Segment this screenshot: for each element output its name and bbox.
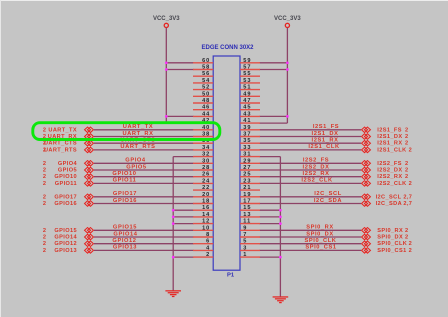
svg-text:58: 58: [202, 65, 210, 71]
svg-text:SPI0_DX: SPI0_DX: [377, 235, 403, 241]
svg-text:SPI0_CS1: SPI0_CS1: [377, 248, 406, 254]
svg-text:50: 50: [202, 91, 210, 97]
svg-text:UART_RX: UART_RX: [122, 131, 153, 137]
svg-text:3: 3: [243, 245, 247, 251]
svg-text:2,7: 2,7: [403, 201, 412, 207]
svg-text:2: 2: [43, 161, 47, 167]
svg-text:27: 27: [243, 165, 251, 171]
svg-text:29: 29: [243, 158, 251, 164]
svg-text:2: 2: [405, 228, 409, 234]
svg-text:2: 2: [409, 248, 413, 254]
svg-text:SPI0_RX: SPI0_RX: [306, 225, 334, 231]
svg-text:39: 39: [243, 125, 251, 131]
svg-text:7: 7: [243, 232, 247, 238]
svg-text:51: 51: [243, 85, 251, 91]
svg-text:UART_RTS: UART_RTS: [120, 144, 155, 150]
svg-text:45: 45: [243, 105, 251, 111]
svg-text:GPIO12: GPIO12: [54, 241, 77, 247]
svg-text:I2C_SDA: I2C_SDA: [376, 201, 402, 207]
svg-text:34: 34: [202, 145, 210, 151]
svg-text:49: 49: [243, 91, 251, 97]
svg-text:21: 21: [243, 185, 251, 191]
svg-text:2: 2: [43, 248, 47, 254]
svg-text:44: 44: [202, 111, 210, 117]
svg-text:35: 35: [243, 138, 251, 144]
svg-text:15: 15: [243, 205, 251, 211]
svg-text:24: 24: [202, 178, 210, 184]
svg-text:UART_TX: UART_TX: [48, 127, 77, 133]
svg-text:43: 43: [243, 111, 251, 117]
svg-text:52: 52: [202, 85, 210, 91]
svg-text:30: 30: [202, 158, 210, 164]
svg-text:47: 47: [243, 98, 251, 104]
svg-text:VCC_3V3: VCC_3V3: [274, 16, 301, 22]
svg-text:2: 2: [409, 181, 413, 187]
svg-text:2: 2: [43, 168, 47, 174]
svg-text:10: 10: [202, 225, 210, 231]
svg-text:38: 38: [202, 132, 210, 138]
svg-text:I2S2_CLK: I2S2_CLK: [377, 181, 406, 187]
svg-text:EDGE CONN 30X2: EDGE CONN 30X2: [201, 45, 254, 51]
svg-text:SPI0_CLK: SPI0_CLK: [377, 241, 407, 247]
svg-text:SPI0_RX: SPI0_RX: [377, 228, 403, 234]
svg-text:GPIO12: GPIO12: [112, 238, 136, 244]
svg-text:25: 25: [243, 172, 251, 178]
svg-text:2: 2: [43, 174, 47, 180]
svg-text:I2S1_FS: I2S1_FS: [313, 124, 339, 130]
svg-text:GPIO14: GPIO14: [113, 231, 137, 237]
svg-text:GPIO11: GPIO11: [55, 181, 77, 187]
svg-text:2: 2: [43, 241, 47, 247]
svg-text:2: 2: [43, 201, 47, 207]
svg-text:20: 20: [202, 192, 210, 198]
svg-text:1: 1: [243, 252, 247, 258]
svg-text:2: 2: [405, 134, 409, 140]
svg-text:GPIO4: GPIO4: [58, 161, 78, 167]
svg-text:2: 2: [405, 235, 409, 241]
svg-text:54: 54: [202, 78, 210, 84]
svg-text:GPIO15: GPIO15: [113, 225, 137, 231]
svg-text:UART_TX: UART_TX: [123, 124, 153, 130]
svg-text:53: 53: [243, 78, 251, 84]
svg-text:4: 4: [206, 245, 210, 251]
svg-text:GPIO15: GPIO15: [54, 228, 77, 234]
svg-text:28: 28: [202, 165, 210, 171]
svg-text:2: 2: [206, 252, 210, 258]
svg-text:2,7: 2,7: [403, 194, 412, 200]
svg-text:GPIO4: GPIO4: [125, 158, 146, 164]
svg-text:13: 13: [243, 212, 251, 218]
svg-text:I2S1_FS: I2S1_FS: [377, 127, 402, 133]
svg-text:2: 2: [43, 127, 47, 133]
svg-text:9: 9: [243, 225, 247, 231]
svg-text:I2S2_DX: I2S2_DX: [303, 164, 330, 170]
svg-text:16: 16: [202, 205, 210, 211]
svg-text:17: 17: [243, 199, 251, 205]
svg-text:GPIO17: GPIO17: [54, 194, 77, 200]
svg-text:GPIO13: GPIO13: [54, 248, 77, 254]
svg-text:60: 60: [202, 58, 210, 64]
svg-text:I2S1_CLK: I2S1_CLK: [308, 144, 340, 150]
svg-text:2: 2: [409, 241, 413, 247]
svg-text:5: 5: [243, 239, 247, 245]
svg-text:I2S2_DX: I2S2_DX: [377, 168, 402, 174]
svg-text:I2S2_FS: I2S2_FS: [377, 161, 402, 167]
svg-text:56: 56: [202, 71, 210, 77]
svg-text:22: 22: [202, 185, 210, 191]
svg-text:GPIO16: GPIO16: [54, 201, 77, 207]
svg-text:2: 2: [409, 147, 413, 153]
svg-text:2: 2: [405, 127, 409, 133]
svg-text:GPIO11: GPIO11: [113, 178, 137, 184]
svg-text:55: 55: [243, 71, 251, 77]
svg-text:2: 2: [405, 168, 409, 174]
svg-text:46: 46: [202, 105, 210, 111]
svg-text:I2S2_RX: I2S2_RX: [303, 171, 330, 177]
svg-text:I2C_SCL: I2C_SCL: [314, 191, 342, 197]
svg-text:VCC_3V3: VCC_3V3: [153, 16, 180, 22]
svg-text:I2C_SCL: I2C_SCL: [376, 194, 402, 200]
svg-text:26: 26: [202, 172, 210, 178]
svg-text:2: 2: [405, 161, 409, 167]
svg-text:2: 2: [43, 235, 47, 241]
svg-text:GPIO17: GPIO17: [113, 191, 137, 197]
svg-text:59: 59: [243, 58, 251, 64]
svg-text:37: 37: [243, 132, 251, 138]
svg-text:I2S1_RX: I2S1_RX: [312, 138, 339, 144]
svg-text:I2C_SDA: I2C_SDA: [314, 198, 342, 204]
svg-text:8: 8: [206, 232, 210, 238]
svg-text:6: 6: [206, 239, 210, 245]
svg-text:SPI0_DX: SPI0_DX: [306, 231, 334, 237]
svg-text:12: 12: [202, 219, 210, 225]
svg-text:23: 23: [243, 178, 251, 184]
svg-text:I2S1_RX: I2S1_RX: [377, 141, 402, 147]
svg-text:33: 33: [243, 145, 251, 151]
svg-text:48: 48: [202, 98, 210, 104]
svg-text:2: 2: [405, 174, 409, 180]
svg-text:I2S1_DX: I2S1_DX: [377, 134, 402, 140]
svg-text:I2S1_DX: I2S1_DX: [312, 131, 339, 137]
svg-text:14: 14: [202, 212, 210, 218]
svg-text:GPIO10: GPIO10: [112, 171, 136, 177]
svg-text:32: 32: [202, 152, 210, 158]
svg-text:UART_CTS: UART_CTS: [44, 141, 77, 147]
svg-text:SPI0_CLK: SPI0_CLK: [305, 238, 337, 244]
svg-text:GPIO14: GPIO14: [54, 235, 77, 241]
svg-text:SPI0_CS1: SPI0_CS1: [305, 245, 336, 251]
svg-text:P1: P1: [227, 272, 235, 278]
svg-text:UART_RTS: UART_RTS: [44, 147, 77, 153]
svg-text:I2S2_FS: I2S2_FS: [303, 158, 329, 164]
svg-text:I2S2_RX: I2S2_RX: [377, 174, 402, 180]
svg-text:2: 2: [43, 181, 47, 187]
svg-text:57: 57: [243, 65, 251, 71]
svg-text:GPIO16: GPIO16: [113, 198, 137, 204]
svg-text:I2S2_CLK: I2S2_CLK: [301, 178, 333, 184]
svg-text:GPIO10: GPIO10: [54, 174, 77, 180]
svg-text:2: 2: [405, 141, 409, 147]
svg-text:2: 2: [43, 194, 47, 200]
svg-text:2: 2: [43, 228, 47, 234]
svg-text:GPIO5: GPIO5: [126, 164, 146, 170]
svg-text:18: 18: [202, 199, 210, 205]
svg-text:31: 31: [243, 152, 251, 158]
svg-text:GPIO5: GPIO5: [58, 168, 77, 174]
svg-text:I2S1_CLK: I2S1_CLK: [377, 147, 406, 153]
svg-text:41: 41: [243, 118, 251, 124]
svg-text:GPIO13: GPIO13: [113, 245, 137, 251]
svg-text:40: 40: [202, 125, 210, 131]
svg-text:19: 19: [243, 192, 251, 198]
svg-text:11: 11: [243, 219, 251, 225]
